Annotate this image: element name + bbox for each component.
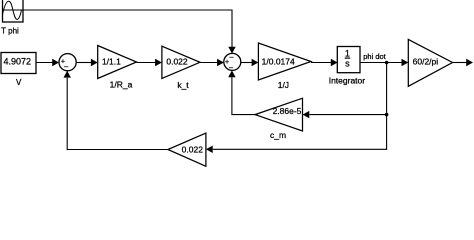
svg-text:0.022: 0.022 — [182, 144, 204, 154]
svg-text:4.9072: 4.9072 — [4, 56, 32, 66]
wire k_e to sum1 bottom input — [64, 71, 168, 150]
svg-text:60/2/pi: 60/2/pi — [413, 56, 439, 66]
junction dot c_m tap — [385, 113, 389, 117]
wire c_m to sum2 bottom input — [228, 70, 255, 114]
svg-text:c_m: c_m — [270, 130, 286, 140]
wire sum1 to gain 1/R_a — [76, 59, 98, 66]
wire 1/R_a to k_t — [137, 59, 162, 66]
svg-text:T phi: T phi — [1, 27, 19, 36]
svg-text:–: – — [230, 54, 234, 61]
svg-text:1/R_a: 1/R_a — [110, 80, 133, 90]
gain 1/J value 1/0.0174 — [258, 43, 311, 80]
svg-text:phi dot: phi dot — [363, 52, 386, 61]
svg-text:1/J: 1/J — [278, 80, 289, 90]
wire k_t to sum2 — [200, 59, 224, 66]
sum junction sum1 — [59, 54, 76, 71]
svg-text:k_t: k_t — [177, 80, 189, 90]
wire integrator to gain 60/2/pi — [361, 59, 409, 66]
gain k_e value 0.022 (outer feedback) — [168, 133, 206, 166]
gain 60/2/pi — [408, 39, 452, 86]
gain c_m value 2.86e-5 — [255, 98, 303, 131]
sine source block T phi — [3, 0, 24, 22]
svg-text:–: – — [64, 63, 68, 70]
svg-text:1: 1 — [345, 48, 350, 58]
feedback trunk wire phi dot down and left to k_e gain — [206, 63, 387, 154]
svg-text:1/1.1: 1/1.1 — [102, 57, 121, 67]
wire sine output to sum2 top input — [23, 10, 236, 54]
svg-text:s: s — [345, 59, 350, 69]
wire tap to gain c_m — [303, 111, 387, 118]
constant block V value 4.9072 — [1, 53, 36, 74]
integrator block 1/s — [337, 47, 360, 73]
output wire with arrowhead — [453, 59, 474, 66]
svg-text:Integrator: Integrator — [329, 75, 366, 85]
svg-text:–: – — [229, 64, 233, 71]
sum junction sum2 — [224, 53, 241, 71]
gain 1/R_a value 1/1.1 — [98, 46, 137, 79]
svg-text:0.022: 0.022 — [166, 57, 188, 67]
junction dot phi dot — [385, 61, 389, 65]
wire 1/J to integrator — [311, 59, 338, 66]
gain k_t value 0.022 — [162, 46, 200, 78]
svg-text:1/0.0174: 1/0.0174 — [262, 57, 295, 67]
wire V to sum1 — [36, 59, 59, 66]
svg-text:V: V — [16, 78, 22, 87]
wire sum2 to gain 1/J — [241, 59, 259, 66]
svg-text:2.86e-5: 2.86e-5 — [273, 106, 302, 116]
